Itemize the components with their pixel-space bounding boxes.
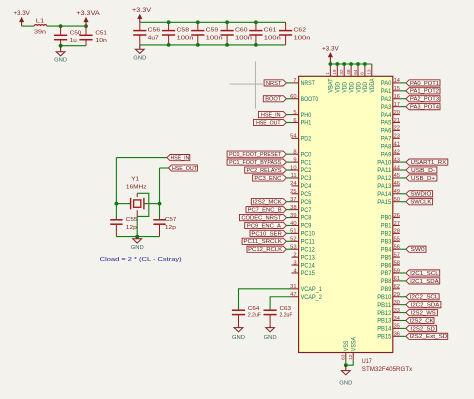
capacitor C62 100n bbox=[279, 22, 292, 45]
svg-text:I2S2_SD: I2S2_SD bbox=[411, 326, 435, 332]
svg-text:59: 59 bbox=[394, 268, 400, 274]
svg-text:PC4: PC4 bbox=[301, 183, 312, 190]
pin PA13 46 bbox=[377, 181, 400, 190]
wire bbox=[116, 203, 130, 205]
svg-text:C60: C60 bbox=[235, 28, 248, 34]
svg-text:I2S2_WS: I2S2_WS bbox=[411, 310, 436, 316]
svg-text:62: 62 bbox=[394, 284, 400, 290]
label PA3_POT4 bbox=[406, 104, 440, 111]
svg-text:100n: 100n bbox=[206, 36, 223, 42]
svg-text:33: 33 bbox=[394, 308, 400, 314]
svg-text:PC15: PC15 bbox=[301, 270, 316, 277]
svg-text:USB_D+: USB_D+ bbox=[411, 176, 435, 182]
svg-text:20: 20 bbox=[394, 110, 400, 116]
label I2S2_Ext_SD bbox=[406, 333, 448, 340]
pin PA6 22 bbox=[381, 126, 400, 135]
svg-text:57: 57 bbox=[394, 252, 400, 258]
svg-text:PD2: PD2 bbox=[301, 136, 312, 143]
label BOOT bbox=[263, 96, 286, 103]
junction bbox=[335, 62, 339, 66]
pin PC3 11 bbox=[291, 173, 312, 182]
pin PB3 55 bbox=[381, 237, 400, 246]
pin PC11 52 bbox=[290, 237, 315, 246]
junction bbox=[115, 202, 119, 206]
label USB_D- bbox=[406, 167, 437, 174]
svg-text:4: 4 bbox=[293, 268, 296, 274]
pin PA15 50 bbox=[377, 197, 400, 206]
svg-text:C59: C59 bbox=[206, 28, 219, 34]
svg-text:13: 13 bbox=[367, 69, 373, 75]
svg-text:+3.3V: +3.3V bbox=[132, 7, 152, 14]
svg-text:PC5: PC5 bbox=[301, 191, 312, 198]
svg-text:BOOT0: BOOT0 bbox=[301, 96, 319, 103]
svg-text:PC0_FOOT_PRESET: PC0_FOOT_PRESET bbox=[229, 152, 282, 158]
ground bbox=[264, 326, 277, 342]
svg-text:PC13: PC13 bbox=[301, 254, 316, 261]
svg-text:8: 8 bbox=[293, 149, 296, 155]
pin VCAP_2 47 bbox=[290, 292, 322, 301]
capacitor C50 bbox=[54, 26, 67, 46]
pin PC10 51 bbox=[290, 229, 315, 238]
label PC0_FOOT_PRESET bbox=[227, 151, 286, 158]
svg-text:10n: 10n bbox=[95, 38, 107, 44]
svg-text:PC14: PC14 bbox=[301, 262, 316, 269]
label PA1_POT2 bbox=[406, 88, 440, 95]
pin PB1 27 bbox=[381, 221, 400, 230]
svg-text:21: 21 bbox=[394, 118, 400, 124]
pin PA0 14 bbox=[381, 78, 400, 87]
junction bbox=[254, 43, 258, 47]
svg-text:PC10_SER: PC10_SER bbox=[251, 231, 282, 237]
wire bbox=[400, 201, 406, 203]
svg-text:14: 14 bbox=[394, 78, 400, 84]
svg-text:PA15: PA15 bbox=[377, 199, 392, 206]
svg-text:4u7: 4u7 bbox=[148, 36, 159, 42]
wire bbox=[400, 320, 406, 322]
svg-text:C64: C64 bbox=[248, 306, 260, 312]
svg-text:I2S2_CK: I2S2_CK bbox=[410, 318, 434, 324]
capacitor C51 bbox=[79, 26, 92, 46]
wire bbox=[140, 44, 286, 46]
svg-text:L1: L1 bbox=[36, 19, 45, 25]
svg-text:PC2: PC2 bbox=[301, 167, 312, 174]
capacitor C56 4u7 bbox=[133, 22, 146, 45]
svg-text:PC0: PC0 bbox=[301, 151, 312, 158]
wire bbox=[286, 240, 291, 242]
svg-text:+3.3VA: +3.3VA bbox=[76, 10, 101, 17]
svg-text:PA3: PA3 bbox=[381, 104, 392, 111]
wire bbox=[47, 25, 86, 27]
svg-text:GND: GND bbox=[339, 380, 352, 386]
junction bbox=[196, 20, 200, 24]
wire bbox=[400, 312, 406, 314]
wire bbox=[400, 335, 406, 337]
ground bbox=[54, 46, 67, 64]
label I2S2_SD bbox=[406, 325, 437, 332]
svg-text:32: 32 bbox=[339, 69, 345, 75]
svg-text:PA8: PA8 bbox=[381, 143, 392, 150]
svg-text:7: 7 bbox=[293, 78, 296, 84]
label PC12_RCLK bbox=[247, 246, 286, 253]
pin PC6 37 bbox=[290, 197, 312, 206]
svg-text:22: 22 bbox=[394, 126, 400, 132]
svg-text:39n: 39n bbox=[34, 29, 46, 35]
svg-text:GND: GND bbox=[131, 245, 144, 251]
ground bbox=[133, 45, 146, 62]
svg-text:PB4: PB4 bbox=[381, 246, 392, 253]
svg-text:USB_D-: USB_D- bbox=[411, 168, 435, 174]
svg-text:PB2: PB2 bbox=[381, 231, 392, 238]
pin PB2 28 bbox=[381, 229, 400, 238]
ground bbox=[131, 237, 144, 251]
power +3.3V bbox=[13, 10, 30, 26]
svg-text:58: 58 bbox=[394, 260, 400, 266]
junction bbox=[196, 43, 200, 47]
svg-text:PC10: PC10 bbox=[301, 231, 316, 238]
svg-text:U17: U17 bbox=[362, 358, 373, 365]
wire bbox=[329, 64, 331, 65]
label I2S2_MCK bbox=[251, 199, 286, 206]
wire bbox=[400, 248, 406, 250]
wire bbox=[286, 177, 291, 179]
inductor L1 bbox=[34, 19, 47, 36]
wire bbox=[400, 272, 406, 274]
svg-text:GND: GND bbox=[264, 335, 277, 341]
wire bbox=[400, 304, 406, 306]
wire bbox=[286, 153, 291, 155]
wire bbox=[239, 289, 292, 310]
pin VDD 6 bbox=[360, 65, 370, 92]
svg-text:6: 6 bbox=[293, 118, 296, 124]
label NRST bbox=[264, 80, 286, 87]
svg-text:PA10: PA10 bbox=[377, 159, 392, 166]
label PC11_SRCLK bbox=[242, 238, 286, 245]
pin PB6 58 bbox=[381, 260, 400, 269]
svg-text:C62: C62 bbox=[294, 28, 307, 34]
svg-text:C51: C51 bbox=[95, 31, 107, 37]
label I2C1_SCL bbox=[406, 270, 440, 277]
label SWCLK bbox=[406, 199, 433, 206]
capacitor C58 100n bbox=[162, 22, 175, 45]
wire bbox=[400, 296, 406, 298]
svg-text:HSE_OUT: HSE_OUT bbox=[172, 166, 198, 172]
wire bbox=[400, 98, 406, 100]
wire bbox=[400, 177, 406, 179]
pin PB13 34 bbox=[377, 316, 400, 325]
pin PB14 35 bbox=[377, 324, 400, 333]
svg-text:GND: GND bbox=[133, 56, 146, 62]
label CODEC_NRST bbox=[240, 214, 287, 221]
pin VDD 19 bbox=[332, 65, 342, 92]
svg-text:19: 19 bbox=[332, 69, 338, 75]
label I2S2_WS bbox=[406, 309, 438, 316]
label PC2_RELAYS bbox=[245, 167, 287, 174]
svg-text:PC12: PC12 bbox=[301, 246, 316, 253]
svg-text:PC11: PC11 bbox=[301, 239, 316, 246]
svg-text:1: 1 bbox=[325, 72, 331, 75]
svg-text:PA1: PA1 bbox=[381, 88, 392, 95]
pin PA2 16 bbox=[381, 94, 400, 103]
svg-text:PC9: PC9 bbox=[301, 223, 312, 230]
label SWDIO bbox=[406, 191, 433, 198]
svg-text:PA6: PA6 bbox=[381, 128, 392, 135]
wire bbox=[159, 168, 161, 219]
svg-text:24: 24 bbox=[290, 181, 296, 187]
svg-text:GND: GND bbox=[54, 58, 67, 64]
wire bbox=[137, 193, 149, 216]
svg-text:30: 30 bbox=[394, 300, 400, 306]
svg-text:9: 9 bbox=[293, 157, 296, 163]
svg-text:I2C2_SDA: I2C2_SDA bbox=[411, 303, 440, 309]
pin PB8 61 bbox=[381, 276, 400, 285]
label HSE_OUT bbox=[254, 119, 287, 126]
svg-text:100n: 100n bbox=[235, 36, 252, 42]
svg-text:VDDA: VDDA bbox=[369, 78, 376, 93]
label PC10_SER bbox=[250, 230, 286, 237]
svg-text:PB14: PB14 bbox=[377, 326, 392, 333]
svg-text:23: 23 bbox=[394, 134, 400, 140]
junction bbox=[225, 43, 229, 47]
svg-text:PC1: PC1 bbox=[301, 159, 312, 166]
svg-text:USART1_RX: USART1_RX bbox=[411, 160, 447, 166]
wire bbox=[286, 209, 291, 211]
svg-text:HSE_IN: HSE_IN bbox=[261, 112, 281, 118]
pin PA5 21 bbox=[381, 118, 400, 127]
svg-text:I2S2_Ext_SD: I2S2_Ext_SD bbox=[409, 334, 447, 340]
svg-text:PA0: PA0 bbox=[381, 80, 392, 87]
label PC9_ENC_A bbox=[245, 222, 287, 229]
wire bbox=[286, 98, 291, 100]
svg-text:6: 6 bbox=[360, 72, 366, 75]
label PA0_POT1 bbox=[406, 80, 440, 87]
label I2C1_SDA bbox=[406, 278, 440, 285]
svg-text:PC9_ENC_A: PC9_ENC_A bbox=[247, 223, 281, 229]
svg-text:55: 55 bbox=[394, 237, 400, 243]
svg-text:C61: C61 bbox=[264, 28, 277, 34]
pin PA12 45 bbox=[377, 173, 400, 182]
svg-text:PB7: PB7 bbox=[381, 270, 392, 277]
svg-text:+3.3V: +3.3V bbox=[13, 10, 30, 17]
svg-text:CODEC_NRST: CODEC_NRST bbox=[241, 215, 282, 221]
wire bbox=[400, 280, 406, 282]
wire bbox=[330, 63, 371, 65]
svg-text:PB1: PB1 bbox=[381, 223, 392, 230]
junction bbox=[59, 44, 63, 48]
svg-text:Cload = 2 * (CL - Cstray): Cload = 2 * (CL - Cstray) bbox=[100, 257, 182, 263]
svg-text:35: 35 bbox=[394, 324, 400, 330]
wire bbox=[400, 90, 406, 92]
svg-text:GND: GND bbox=[232, 335, 245, 341]
svg-text:41: 41 bbox=[394, 142, 400, 148]
svg-text:16MHz: 16MHz bbox=[126, 184, 147, 190]
svg-text:I2S2_MCK: I2S2_MCK bbox=[253, 200, 282, 206]
wire bbox=[286, 248, 291, 250]
svg-text:PC2_RELAYS: PC2_RELAYS bbox=[246, 168, 281, 174]
svg-text:56: 56 bbox=[394, 245, 400, 251]
junction bbox=[356, 62, 360, 66]
pin PH1 6 bbox=[292, 118, 312, 127]
pin PA7 23 bbox=[381, 134, 400, 143]
pin PB7 59 bbox=[381, 268, 400, 277]
junction bbox=[167, 43, 171, 47]
wire bbox=[270, 297, 291, 310]
svg-text:48: 48 bbox=[346, 69, 352, 75]
pin PC7 38 bbox=[290, 205, 312, 214]
svg-text:PB0: PB0 bbox=[381, 215, 392, 222]
pin PB11 30 bbox=[377, 300, 400, 309]
svg-text:3: 3 bbox=[293, 260, 296, 266]
pin PC13 2 bbox=[292, 252, 316, 261]
junction bbox=[84, 24, 88, 28]
pin VBAT 1 bbox=[325, 65, 335, 92]
label HSE_OUT bbox=[168, 165, 197, 172]
ground bbox=[339, 365, 352, 386]
svg-text:45: 45 bbox=[394, 173, 400, 179]
svg-text:49: 49 bbox=[394, 189, 400, 195]
junction bbox=[344, 363, 348, 367]
svg-text:STM32F405RGTx: STM32F405RGTx bbox=[362, 366, 413, 373]
wire bbox=[400, 82, 406, 84]
pin PC2 10 bbox=[290, 165, 312, 174]
junction bbox=[342, 62, 346, 66]
wire bbox=[400, 161, 406, 163]
pin VDD 64 bbox=[353, 65, 363, 92]
pin VCAP_1 31 bbox=[290, 284, 322, 293]
svg-text:PA3_POT4: PA3_POT4 bbox=[410, 105, 439, 111]
svg-text:100n: 100n bbox=[294, 36, 311, 42]
svg-text:PC1_FOOT_BYPASS: PC1_FOOT_BYPASS bbox=[229, 160, 281, 166]
svg-text:PA13: PA13 bbox=[377, 183, 392, 190]
svg-text:16: 16 bbox=[394, 94, 400, 100]
pin PC1 9 bbox=[292, 157, 312, 166]
label PC1_FOOT_BYPASS bbox=[227, 159, 286, 166]
svg-text:29: 29 bbox=[394, 292, 400, 298]
wire bbox=[286, 201, 291, 203]
svg-text:PB5: PB5 bbox=[381, 254, 392, 261]
svg-text:17: 17 bbox=[394, 102, 400, 108]
pin PC9 40 bbox=[290, 221, 312, 230]
svg-text:C63: C63 bbox=[280, 306, 292, 312]
junction bbox=[59, 24, 63, 28]
pin VSSA 12 bbox=[348, 336, 358, 360]
junction bbox=[135, 235, 139, 239]
svg-text:PC8: PC8 bbox=[301, 215, 312, 222]
svg-text:+3.3V: +3.3V bbox=[322, 45, 339, 52]
pin PA11 44 bbox=[377, 165, 400, 174]
svg-text:PB6: PB6 bbox=[381, 262, 392, 269]
wire bbox=[345, 360, 347, 365]
svg-text:PA14: PA14 bbox=[377, 191, 392, 198]
capacitor C64 2.2uF bbox=[232, 310, 245, 326]
power +3.3V bbox=[322, 45, 339, 64]
svg-text:C56: C56 bbox=[148, 28, 161, 34]
svg-text:1u: 1u bbox=[70, 38, 77, 44]
crystal Y1 16MHz bbox=[126, 176, 147, 216]
svg-text:64: 64 bbox=[353, 69, 359, 75]
pin PA10 43 bbox=[377, 157, 400, 166]
svg-text:NRST: NRST bbox=[301, 80, 315, 87]
svg-text:26: 26 bbox=[394, 213, 400, 219]
svg-text:50: 50 bbox=[394, 197, 400, 203]
pin PA9 42 bbox=[381, 149, 400, 158]
svg-text:PC11_SRCLK: PC11_SRCLK bbox=[243, 239, 282, 245]
wire bbox=[286, 82, 291, 84]
wire bbox=[144, 203, 159, 205]
pin PC5 25 bbox=[290, 189, 312, 198]
pin VSS 63 bbox=[341, 341, 351, 361]
svg-text:PC3: PC3 bbox=[301, 175, 312, 182]
svg-text:PC7: PC7 bbox=[301, 207, 312, 214]
wire bbox=[286, 217, 291, 219]
label USART1_RX bbox=[406, 159, 448, 166]
svg-text:46: 46 bbox=[394, 181, 400, 187]
svg-text:PC6: PC6 bbox=[301, 199, 312, 206]
svg-text:2.2uF: 2.2uF bbox=[248, 313, 261, 319]
svg-text:PC12_RCLK: PC12_RCLK bbox=[248, 247, 282, 253]
wire bbox=[136, 216, 138, 236]
svg-text:PA2: PA2 bbox=[381, 96, 392, 103]
pin PA4 20 bbox=[381, 110, 400, 119]
svg-text:NRST: NRST bbox=[266, 81, 282, 87]
wire bbox=[115, 158, 117, 220]
capacitor C59 100n bbox=[191, 22, 204, 45]
wire bbox=[22, 25, 35, 27]
svg-text:12p: 12p bbox=[165, 225, 177, 231]
capacitor C61 100n bbox=[249, 22, 262, 45]
label USB_D+ bbox=[406, 175, 437, 182]
svg-text:PB12: PB12 bbox=[377, 310, 392, 317]
wire bbox=[286, 161, 291, 163]
cursor crosshair bbox=[230, 62, 264, 109]
wire bbox=[116, 236, 159, 238]
pin VDD 32 bbox=[339, 65, 349, 92]
wire bbox=[140, 21, 286, 23]
label PC7_ENC_B bbox=[246, 207, 286, 214]
svg-text:PH1: PH1 bbox=[301, 120, 312, 127]
svg-text:15: 15 bbox=[394, 86, 400, 92]
svg-text:PA0_POT1: PA0_POT1 bbox=[410, 81, 439, 87]
svg-text:PA4: PA4 bbox=[381, 112, 392, 119]
label PA2_POT3 bbox=[406, 96, 440, 103]
junction bbox=[254, 20, 258, 24]
wire bbox=[160, 167, 169, 169]
pin PB0 26 bbox=[381, 213, 400, 222]
svg-text:12p: 12p bbox=[126, 225, 138, 231]
wire bbox=[286, 114, 291, 116]
svg-text:PB10: PB10 bbox=[377, 294, 392, 301]
svg-text:PC3_ENC: PC3_ENC bbox=[254, 176, 281, 182]
label I2C2_SCL bbox=[406, 294, 439, 301]
capacitor C63 2.2uF bbox=[264, 310, 277, 326]
pin PC8 39 bbox=[290, 213, 312, 222]
pin VDDA 13 bbox=[367, 65, 377, 92]
junction bbox=[329, 62, 333, 66]
pin PC0 8 bbox=[292, 149, 312, 158]
label HSE_IN bbox=[167, 155, 190, 162]
svg-text:VSSA: VSSA bbox=[351, 336, 358, 351]
power +3.3VA bbox=[76, 10, 101, 26]
svg-text:12: 12 bbox=[348, 354, 354, 360]
wire bbox=[400, 169, 406, 171]
svg-text:5: 5 bbox=[293, 110, 296, 116]
svg-text:PC7_ENC_B: PC7_ENC_B bbox=[248, 208, 282, 214]
svg-text:61: 61 bbox=[394, 276, 400, 282]
svg-text:I2C1_SDA: I2C1_SDA bbox=[410, 279, 439, 285]
svg-text:HSE_IN: HSE_IN bbox=[170, 156, 189, 162]
svg-text:43: 43 bbox=[394, 157, 400, 163]
junction bbox=[158, 202, 162, 206]
pin PA1 15 bbox=[381, 86, 400, 95]
